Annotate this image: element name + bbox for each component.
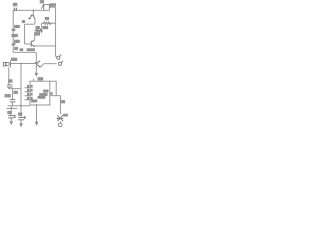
wire bottom rail second xyxy=(7,107,18,109)
resistor R2 label xyxy=(15,40,16,42)
wire x12.6 down xyxy=(12,89,14,100)
capacitor C2 xyxy=(14,8,16,11)
capacitor C5 label xyxy=(14,91,15,93)
transistor T3 xyxy=(35,61,41,68)
transistor T2 label xyxy=(20,49,21,51)
resistor R1 xyxy=(12,29,16,31)
wire terminal1 lead xyxy=(56,56,57,57)
wire C6 vertical xyxy=(20,120,22,124)
ground arrow mid xyxy=(19,123,23,127)
terminal 2 xyxy=(58,62,61,65)
speaker label xyxy=(61,101,62,103)
wire x25 vertical xyxy=(24,24,26,44)
speaker LS1 xyxy=(57,115,64,121)
wire T3 to right rail xyxy=(41,64,44,67)
wire feedback loop xyxy=(50,81,56,96)
wire y52 rail xyxy=(13,51,36,53)
IC pin stubs left xyxy=(24,88,30,100)
wire T2 base lead xyxy=(25,43,32,45)
capacitor C7 xyxy=(8,116,14,118)
IC label above xyxy=(38,78,39,80)
wire R4 to R3 xyxy=(41,23,43,31)
wire T1 collector xyxy=(32,10,34,15)
wire box to right rail xyxy=(49,6,55,8)
transistor T1 xyxy=(28,15,35,19)
wire R3 right lead xyxy=(52,22,55,24)
node jack wire junction xyxy=(20,63,21,64)
capacitor C6 label xyxy=(18,113,19,115)
speaker value label xyxy=(64,114,65,116)
capacitor C4 label xyxy=(9,80,11,82)
capacitor C6 plus xyxy=(23,117,26,119)
wire speaker to terminal xyxy=(59,121,61,123)
wire y63 rail right xyxy=(43,63,56,65)
resistor R1 label xyxy=(15,25,16,27)
wire C4 to y88 wire xyxy=(9,87,21,89)
resistor R3 value xyxy=(42,26,45,28)
resistor R4 xyxy=(35,29,43,32)
resistor R1 value xyxy=(12,34,13,36)
IC interior text xyxy=(44,90,45,92)
wire C7 verticals xyxy=(10,106,12,121)
IC top pin xyxy=(32,79,34,82)
IC box xyxy=(30,81,50,105)
wire y46 rail xyxy=(35,45,56,47)
capacitor C3 xyxy=(41,4,49,10)
wire jack to T3 base xyxy=(11,63,37,65)
capacitor C3 value xyxy=(50,4,51,6)
wire top rail xyxy=(13,9,49,11)
IC pin numbers outside xyxy=(27,85,28,87)
supply arrow mid xyxy=(35,70,37,73)
wire y24 horizontal xyxy=(25,23,35,25)
wire bottom rail xyxy=(8,105,30,107)
capacitor C7 label xyxy=(8,111,9,113)
resistor R4 label xyxy=(36,26,37,28)
input jack label xyxy=(11,58,12,60)
resistor R2 xyxy=(12,43,16,45)
node top rail junction xyxy=(33,10,34,11)
capacitor C5 value xyxy=(5,95,6,97)
capacitor C7 plus xyxy=(13,115,16,117)
capacitor C4 xyxy=(7,85,13,87)
ground arrow left xyxy=(9,121,13,125)
wire left rail xyxy=(12,10,14,52)
ground arrow right xyxy=(35,122,39,126)
wire T1 emitter drop xyxy=(34,19,36,24)
capacitor C2 label xyxy=(13,3,15,6)
wire IC ground down xyxy=(36,105,38,122)
terminal 1 xyxy=(57,56,60,59)
wire right rail xyxy=(55,7,57,56)
resistor R2 value xyxy=(14,47,17,49)
wire x36 vertical xyxy=(35,52,37,70)
transistor T2 type label xyxy=(27,49,28,51)
IC right pin number xyxy=(51,93,52,95)
capacitor C3 label xyxy=(40,1,41,3)
wire T2 collector up xyxy=(34,32,36,40)
IC pin numbers inside xyxy=(31,85,32,87)
capacitor C5 xyxy=(10,100,16,102)
wire x21 vertical xyxy=(20,64,22,118)
resistor R4 value xyxy=(34,33,37,35)
IC right pin stub xyxy=(50,95,56,97)
wire C5 to rail xyxy=(12,102,14,106)
transistor T2 xyxy=(31,40,35,47)
wire to speaker branch xyxy=(56,96,60,115)
resistor R3 label xyxy=(45,17,46,19)
capacitor C6 xyxy=(18,118,24,120)
resistor R3 xyxy=(42,22,53,25)
terminal circle bottom xyxy=(58,123,62,127)
node rail x21 xyxy=(20,105,21,106)
transistor T1 label xyxy=(22,21,23,23)
input jack xyxy=(3,61,10,68)
node rail x36.5 xyxy=(36,104,37,105)
wire jack down xyxy=(8,67,10,85)
